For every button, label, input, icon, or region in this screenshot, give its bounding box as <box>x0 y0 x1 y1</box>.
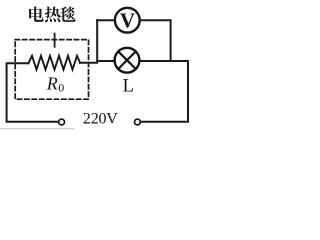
dashed enclosure of electric blanket <box>15 40 88 100</box>
svg-text:0: 0 <box>58 81 64 95</box>
svg-text:R: R <box>46 74 58 94</box>
label 电热毯 (electric blanket) <box>29 7 76 23</box>
terminal: left plug contact <box>59 119 65 125</box>
terminal: right plug contact <box>135 119 141 125</box>
wire: resistor right lead to junction <box>80 62 97 64</box>
wire: lamp right lead, right side and bottom-right <box>139 61 188 122</box>
svg-text:L: L <box>123 77 134 97</box>
wire: junction riser to voltmeter branch <box>96 20 98 61</box>
svg-text:V: V <box>120 9 135 33</box>
voltmeter V <box>115 8 140 33</box>
wire: voltmeter right lead and drop <box>140 20 171 61</box>
wire: left lead, left side and bottom-left <box>7 63 59 121</box>
resistor R0 (zigzag) <box>29 56 81 70</box>
tick mark on dashed box top <box>54 34 56 47</box>
wire: voltmeter left lead <box>97 19 115 21</box>
wire: lamp left lead <box>97 60 115 62</box>
svg-text:220V: 220V <box>83 111 118 128</box>
lamp L (circle with cross) <box>115 48 140 73</box>
